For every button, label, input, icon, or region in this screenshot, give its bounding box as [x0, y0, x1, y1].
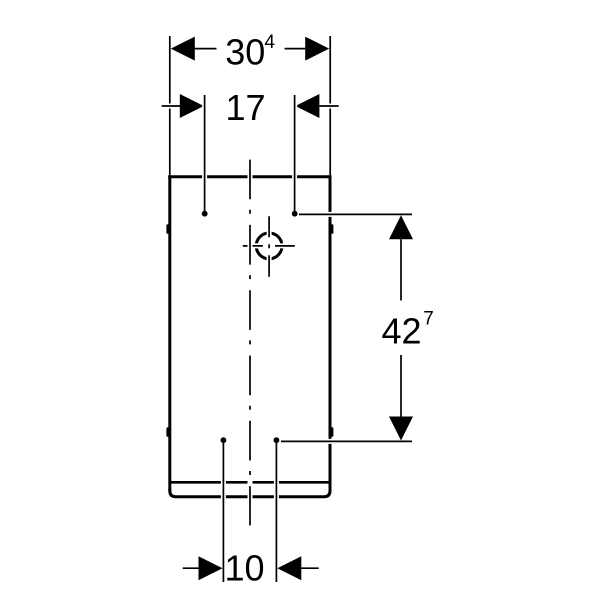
hole bottom-left — [221, 437, 227, 443]
left edge tab top — [166, 226, 169, 233]
svg-text:7: 7 — [423, 308, 434, 329]
hole top-left — [202, 211, 208, 217]
dimension 30.4 arrow right — [305, 37, 329, 61]
right edge tab bottom — [331, 429, 334, 436]
dimension 17 arrow+tail left (with white casing) — [162, 94, 204, 118]
dimension 42.7 extension line bottom (casing cuts panel right edge) — [281, 439, 412, 444]
right edge tab top — [331, 226, 334, 233]
dimension 42.7 line lower segment — [400, 355, 402, 417]
dimension 10 arrow+tail left — [183, 556, 223, 580]
svg-text:42: 42 — [382, 310, 422, 351]
dimension 30.4 arrow left — [171, 37, 195, 61]
svg-text:4: 4 — [264, 32, 275, 53]
dimension 17 arrow+tail right (with white casing) — [295, 94, 338, 118]
dimension 30.4 extension line left — [169, 36, 171, 175]
panel outline — [168, 175, 331, 497]
dimension 10 extension line left (casing cuts panel bottom edges) — [221, 443, 226, 582]
svg-text:10: 10 — [224, 548, 264, 589]
mounting circle (water connection) — [256, 233, 282, 259]
dimension 42.7 arrow up — [389, 215, 413, 239]
crosshair vertical (dash-dot with casing, cuts circle) — [267, 216, 272, 277]
dimension 30.4 extension line right — [329, 36, 331, 175]
dimension 10 extension line right (casing cuts panel bottom edges) — [274, 443, 279, 582]
dimension 42.7 extension line top (casing cuts panel right edge) — [299, 212, 412, 217]
hole top-right — [292, 211, 298, 217]
panel centerline (dash-dot, continuous white casing cuts panel edges and crosshair) — [248, 160, 253, 526]
hole bottom-right — [274, 437, 280, 443]
dimension 30.4 tail left — [195, 48, 217, 50]
left edge tab bottom — [166, 429, 169, 436]
crosshair horizontal (dash-dot with casing, cuts circle) — [243, 243, 295, 248]
svg-text:17: 17 — [225, 87, 265, 128]
dimension 30.4 tail right — [285, 48, 306, 50]
dimension 42.7 line upper segment — [400, 239, 402, 300]
dimension 17 extension line left (casing cuts panel top edge) — [202, 95, 207, 212]
dimension 17 extension line right (casing cuts panel top edge) — [292, 95, 297, 212]
dimension 10 arrow+tail right — [277, 556, 318, 580]
svg-text:30: 30 — [225, 32, 265, 73]
dimension 42.7 arrow down — [389, 417, 413, 441]
